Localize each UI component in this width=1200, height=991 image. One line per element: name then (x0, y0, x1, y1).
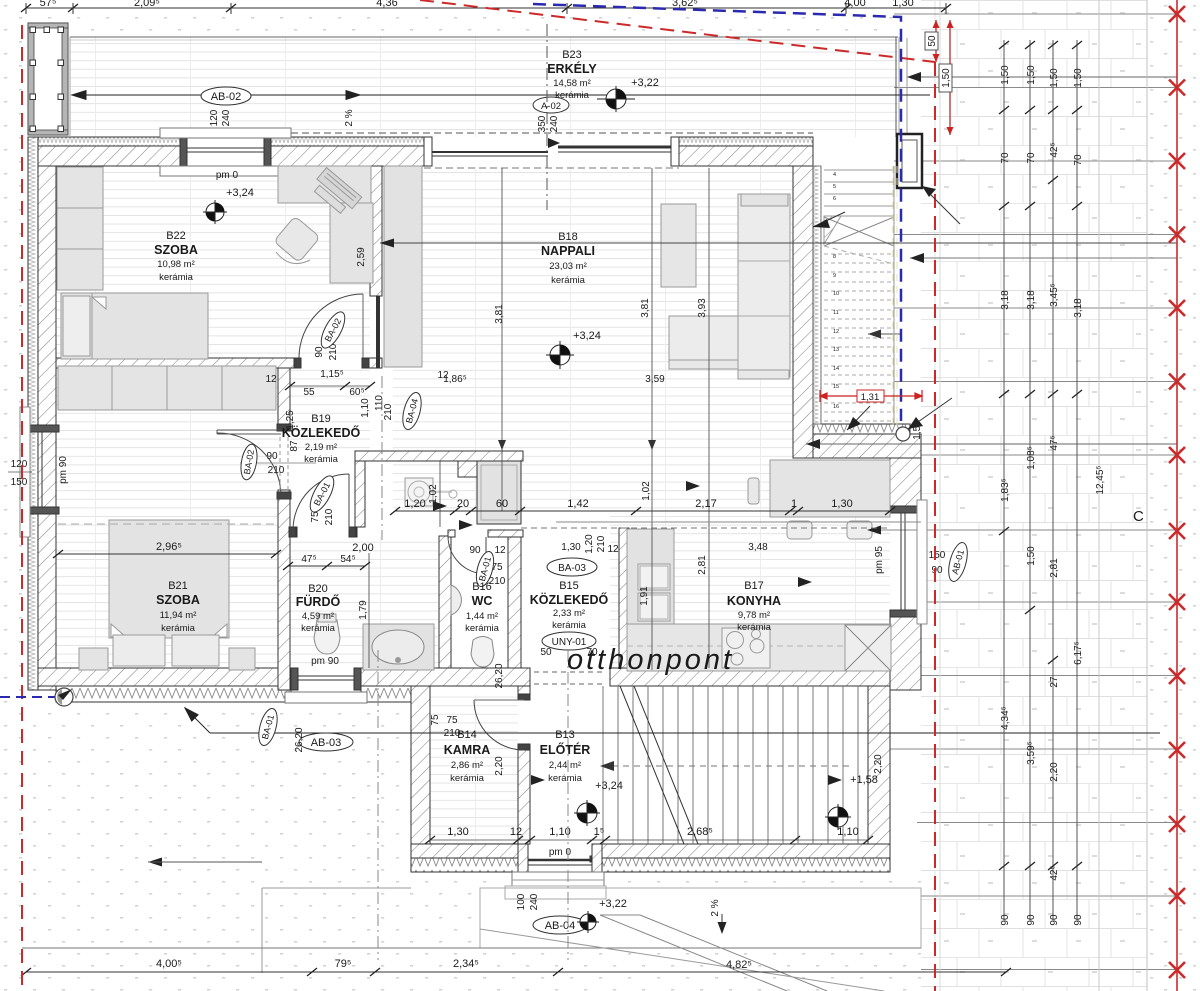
svg-text:B21: B21 (168, 580, 188, 592)
svg-text:90: 90 (1073, 914, 1084, 926)
svg-text:100: 100 (516, 893, 527, 910)
svg-text:75: 75 (310, 511, 321, 523)
svg-text:2,20: 2,20 (494, 756, 505, 776)
svg-text:9: 9 (833, 273, 836, 279)
svg-text:2,09⁵: 2,09⁵ (134, 0, 160, 9)
svg-text:90: 90 (931, 565, 943, 576)
svg-text:57⁵: 57⁵ (40, 0, 57, 9)
svg-text:87: 87 (289, 440, 300, 452)
svg-text:B19: B19 (311, 413, 331, 425)
svg-text:2,81: 2,81 (1049, 558, 1060, 578)
svg-text:NAPPALI: NAPPALI (541, 244, 595, 258)
svg-text:13: 13 (833, 347, 839, 353)
svg-text:kerámia: kerámia (304, 454, 339, 465)
svg-text:2,81: 2,81 (697, 555, 708, 575)
svg-text:12: 12 (265, 374, 277, 385)
svg-text:2,59: 2,59 (356, 247, 367, 267)
svg-text:2,33 m²: 2,33 m² (553, 608, 585, 619)
svg-text:3,59⁵: 3,59⁵ (1026, 741, 1037, 765)
svg-text:2,34⁵: 2,34⁵ (453, 958, 479, 970)
svg-text:42⁵: 42⁵ (1049, 142, 1060, 157)
svg-text:12: 12 (494, 545, 506, 556)
svg-text:27: 27 (1049, 676, 1060, 688)
svg-text:1,31: 1,31 (861, 392, 880, 403)
svg-text:C: C (1133, 508, 1144, 525)
svg-text:1,50: 1,50 (1049, 68, 1060, 88)
svg-text:kerámia: kerámia (161, 623, 196, 634)
svg-text:350: 350 (537, 115, 548, 132)
svg-text:1,08⁵: 1,08⁵ (1026, 446, 1037, 470)
svg-text:12,45⁵: 12,45⁵ (1095, 465, 1106, 494)
svg-text:3,81: 3,81 (640, 298, 651, 318)
svg-text:2,68⁵: 2,68⁵ (687, 826, 713, 838)
svg-text:B22: B22 (166, 230, 186, 242)
svg-text:60⁵: 60⁵ (349, 387, 364, 398)
svg-text:1,50: 1,50 (1073, 68, 1084, 88)
svg-text:1,02: 1,02 (641, 481, 652, 501)
svg-text:10: 10 (833, 291, 839, 297)
svg-text:120: 120 (209, 109, 220, 126)
svg-text:90: 90 (1026, 914, 1037, 926)
svg-text:1⁵: 1⁵ (594, 826, 605, 838)
svg-text:210: 210 (383, 403, 394, 420)
svg-text:4,59 m²: 4,59 m² (302, 611, 334, 622)
svg-text:+3,24: +3,24 (226, 187, 254, 199)
svg-text:1,83⁵: 1,83⁵ (1000, 478, 1011, 502)
svg-text:4: 4 (833, 172, 836, 178)
svg-text:1,10: 1,10 (549, 826, 570, 838)
svg-text:3,45⁵: 3,45⁵ (1049, 283, 1060, 307)
svg-text:1,42: 1,42 (567, 498, 588, 510)
svg-text:1,30: 1,30 (447, 826, 468, 838)
svg-text:11: 11 (833, 310, 839, 316)
svg-text:70: 70 (1073, 154, 1084, 166)
svg-text:3,18: 3,18 (1073, 298, 1084, 318)
svg-text:pm 90: pm 90 (311, 656, 339, 667)
svg-text:2,17: 2,17 (695, 498, 716, 510)
svg-text:B23: B23 (562, 49, 582, 61)
svg-text:23,03 m²: 23,03 m² (549, 261, 587, 272)
svg-text:150: 150 (11, 477, 28, 488)
svg-text:pm 95: pm 95 (874, 546, 885, 574)
svg-text:B15: B15 (559, 580, 579, 592)
svg-text:3,93: 3,93 (697, 298, 708, 318)
svg-text:4,36: 4,36 (376, 0, 397, 9)
svg-text:75: 75 (446, 715, 458, 726)
svg-text:50: 50 (927, 35, 938, 47)
svg-text:70: 70 (1026, 152, 1037, 164)
svg-text:2,20: 2,20 (1049, 762, 1060, 782)
svg-text:otthonpont: otthonpont (567, 644, 734, 676)
svg-text:8: 8 (833, 254, 836, 260)
svg-text:1,30: 1,30 (892, 0, 913, 9)
svg-text:4,34⁵: 4,34⁵ (1000, 706, 1011, 730)
svg-text:SZOBA: SZOBA (154, 243, 198, 257)
svg-text:3,18: 3,18 (1026, 290, 1037, 310)
svg-text:210: 210 (268, 465, 285, 476)
svg-text:150: 150 (929, 550, 946, 561)
svg-text:90: 90 (266, 451, 278, 462)
svg-text:B17: B17 (744, 580, 764, 592)
svg-text:2,00: 2,00 (352, 542, 373, 554)
svg-text:1,15⁵: 1,15⁵ (320, 369, 344, 380)
svg-text:9,78 m²: 9,78 m² (738, 610, 770, 621)
svg-text:kerámia: kerámia (552, 620, 587, 631)
svg-text:pm 0: pm 0 (216, 170, 239, 181)
svg-text:16: 16 (833, 404, 839, 410)
svg-text:12: 12 (833, 329, 839, 335)
svg-text:FÜRDŐ: FÜRDŐ (296, 594, 341, 609)
svg-text:70: 70 (1000, 152, 1011, 164)
svg-text:B13: B13 (555, 729, 575, 741)
svg-text:120: 120 (11, 459, 28, 470)
svg-text:1,20: 1,20 (404, 498, 425, 510)
svg-text:14: 14 (833, 366, 839, 372)
svg-text:4,00⁵: 4,00⁵ (156, 958, 182, 970)
svg-text:240: 240 (529, 893, 540, 910)
svg-text:210: 210 (596, 535, 607, 552)
svg-text:SZOBA: SZOBA (156, 593, 200, 607)
svg-text:42⁵: 42⁵ (1049, 865, 1060, 880)
svg-text:kerámia: kerámia (551, 275, 586, 286)
svg-text:1,50: 1,50 (1026, 65, 1037, 85)
svg-text:90: 90 (1000, 914, 1011, 926)
svg-text:KONYHA: KONYHA (727, 594, 781, 608)
svg-text:1,91: 1,91 (639, 586, 650, 606)
svg-text:4,82⁵: 4,82⁵ (726, 959, 752, 971)
svg-text:B16: B16 (472, 581, 492, 593)
svg-text:6,17⁵: 6,17⁵ (1073, 641, 1084, 665)
svg-text:11,94 m²: 11,94 m² (160, 610, 197, 621)
svg-text:55: 55 (303, 387, 315, 398)
svg-text:B20: B20 (308, 583, 328, 595)
svg-text:kerámia: kerámia (737, 622, 772, 633)
svg-text:210: 210 (324, 508, 335, 525)
svg-text:1,86⁵: 1,86⁵ (443, 374, 467, 385)
svg-text:90: 90 (1049, 914, 1060, 926)
svg-text:B14: B14 (457, 729, 477, 741)
svg-text:12: 12 (607, 544, 619, 555)
svg-text:3,81: 3,81 (494, 304, 505, 324)
svg-text:1,44 m²: 1,44 m² (466, 611, 498, 622)
svg-text:kerámia: kerámia (555, 90, 590, 101)
svg-text:pm 90: pm 90 (58, 456, 69, 484)
svg-text:1,50: 1,50 (1000, 65, 1011, 85)
svg-text:26,20: 26,20 (494, 663, 505, 688)
svg-text:6: 6 (833, 196, 836, 202)
svg-text:KÖZLEKEDŐ: KÖZLEKEDŐ (530, 592, 609, 607)
svg-text:2,96⁵: 2,96⁵ (156, 541, 182, 553)
svg-text:+3,24: +3,24 (595, 780, 623, 792)
svg-text:50: 50 (540, 647, 552, 658)
svg-text:2 %: 2 % (710, 899, 721, 916)
svg-text:54⁵: 54⁵ (340, 554, 355, 565)
svg-text:kerámia: kerámia (548, 773, 583, 784)
svg-text:BA-03: BA-03 (558, 563, 586, 574)
svg-text:1: 1 (791, 498, 797, 510)
svg-text:1,10: 1,10 (360, 398, 371, 418)
svg-text:20: 20 (457, 498, 469, 510)
svg-text:15: 15 (833, 384, 839, 390)
svg-text:1,50: 1,50 (1026, 546, 1037, 566)
svg-text:47⁵: 47⁵ (1049, 435, 1060, 450)
svg-text:+3,22: +3,22 (599, 898, 627, 910)
svg-text:79⁵: 79⁵ (335, 958, 352, 970)
svg-text:240: 240 (221, 109, 232, 126)
svg-text:3,48: 3,48 (748, 542, 768, 553)
svg-text:90: 90 (469, 545, 481, 556)
svg-text:KAMRA: KAMRA (444, 743, 491, 757)
svg-text:10,98 m²: 10,98 m² (157, 259, 195, 270)
svg-text:2,44 m²: 2,44 m² (549, 760, 581, 771)
svg-text:75: 75 (430, 714, 441, 726)
svg-text:AB-03: AB-03 (311, 737, 342, 749)
svg-text:240: 240 (549, 115, 560, 132)
svg-text:47⁵: 47⁵ (301, 554, 316, 565)
svg-text:A-02: A-02 (541, 101, 561, 112)
svg-text:14,58 m²: 14,58 m² (553, 78, 591, 89)
svg-text:60: 60 (496, 498, 508, 510)
svg-text:26,20: 26,20 (294, 727, 305, 752)
svg-text:WC: WC (472, 594, 493, 608)
svg-text:12: 12 (510, 826, 522, 838)
svg-text:1,79: 1,79 (358, 600, 369, 620)
svg-text:1,30: 1,30 (831, 498, 852, 510)
svg-text:ELŐTÉR: ELŐTÉR (540, 742, 591, 757)
svg-text:AB-02: AB-02 (211, 91, 242, 103)
svg-text:kerámia: kerámia (465, 623, 500, 634)
svg-text:kerámia: kerámia (301, 623, 336, 634)
svg-text:3,59: 3,59 (645, 374, 665, 385)
svg-text:2,20: 2,20 (873, 754, 884, 774)
svg-text:3,18: 3,18 (1000, 290, 1011, 310)
svg-text:2 %: 2 % (344, 109, 355, 126)
svg-text:1,20: 1,20 (584, 534, 595, 554)
svg-text:kerámia: kerámia (159, 272, 194, 283)
svg-text:kerámia: kerámia (450, 773, 485, 784)
svg-text:B18: B18 (558, 231, 578, 243)
svg-text:4,00: 4,00 (844, 0, 865, 9)
svg-text:+3,22: +3,22 (631, 77, 659, 89)
svg-text:+3,24: +3,24 (573, 330, 601, 342)
svg-text:5: 5 (833, 184, 836, 190)
svg-text:1,30: 1,30 (561, 542, 581, 553)
svg-text:ERKÉLY: ERKÉLY (547, 61, 597, 76)
svg-text:KÖZLEKEDŐ: KÖZLEKEDŐ (282, 425, 361, 440)
svg-text:1,10: 1,10 (837, 826, 858, 838)
svg-text:1,50: 1,50 (941, 68, 952, 88)
svg-text:AB-04: AB-04 (545, 920, 576, 932)
svg-text:1,02: 1,02 (428, 484, 439, 504)
svg-text:2,86 m²: 2,86 m² (451, 760, 483, 771)
svg-text:3,62⁵: 3,62⁵ (672, 0, 698, 9)
svg-text:+1,58: +1,58 (850, 774, 878, 786)
svg-text:2,19 m²: 2,19 m² (305, 442, 337, 453)
